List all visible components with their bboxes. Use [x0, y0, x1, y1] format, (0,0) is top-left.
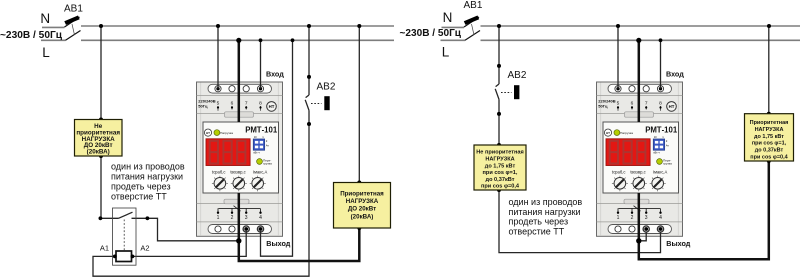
svg-text:N: N	[443, 10, 453, 25]
svg-text:до 0,37кВт: до 0,37кВт	[755, 148, 784, 154]
svg-text:один из проводов: один из проводов	[111, 162, 185, 172]
svg-text:питания нагрузки: питания нагрузки	[111, 172, 183, 182]
svg-text:до 1,75 кВт: до 1,75 кВт	[754, 134, 784, 140]
svg-text:отверстие ТТ: отверстие ТТ	[111, 191, 167, 201]
svg-text:~230В / 50Гц: ~230В / 50Гц	[400, 28, 462, 39]
svg-text:~230В / 50Гц: ~230В / 50Гц	[0, 30, 63, 41]
svg-text:НАГРУЗКА: НАГРУЗКА	[346, 198, 379, 205]
svg-text:Не приоритетная: Не приоритетная	[476, 150, 523, 156]
svg-text:отверстие ТТ: отверстие ТТ	[509, 227, 565, 237]
svg-text:N: N	[40, 11, 50, 26]
svg-text:до 1,75 кВт: до 1,75 кВт	[485, 163, 516, 169]
svg-text:продеть через: продеть через	[509, 217, 569, 227]
svg-text:до 0,37кВт: до 0,37кВт	[486, 177, 515, 183]
svg-text:НАГРУЗКА: НАГРУЗКА	[485, 157, 514, 163]
svg-text:А1: А1	[100, 244, 109, 253]
svg-text:Приоритетная: Приоритетная	[750, 120, 789, 126]
svg-text:АВ1: АВ1	[64, 3, 83, 14]
svg-text:АВ2: АВ2	[317, 81, 336, 92]
svg-text:(20кВА): (20кВА)	[87, 149, 110, 156]
svg-text:НАГРУЗКА: НАГРУЗКА	[755, 127, 784, 133]
svg-text:продеть через: продеть через	[111, 182, 171, 192]
svg-text:АВ1: АВ1	[464, 0, 483, 11]
svg-text:L: L	[442, 45, 450, 60]
svg-text:Приоритетная: Приоритетная	[340, 191, 384, 198]
svg-text:при cos φ=1,: при cos φ=1,	[483, 170, 518, 176]
svg-text:при cos φ=0,4: при cos φ=0,4	[481, 184, 520, 190]
svg-text:питания нагрузки: питания нагрузки	[509, 207, 581, 217]
svg-text:А2: А2	[140, 244, 149, 253]
svg-text:(20кВА): (20кВА)	[351, 213, 374, 220]
svg-text:ДО 20кВт: ДО 20кВт	[348, 206, 376, 213]
svg-text:L: L	[42, 45, 50, 60]
svg-text:при cos φ=0,4: при cos φ=0,4	[750, 155, 788, 161]
svg-text:АВ2: АВ2	[508, 70, 527, 81]
svg-text:при cos φ=1,: при cos φ=1,	[752, 141, 787, 147]
svg-text:один из проводов: один из проводов	[509, 197, 583, 207]
